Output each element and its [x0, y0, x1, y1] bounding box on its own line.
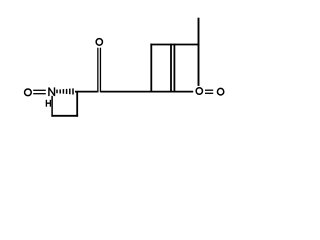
bond ring2 top edge [150, 44, 199, 46]
bond methyl and ring2 right edge [198, 18, 200, 86]
bond ring bottom (CH2-CH2) [51, 115, 78, 117]
atom O3 (ring oxygen) [196, 88, 202, 95]
bond ring right (CH2 to C2 stereocenter) [76, 91, 78, 116]
bond chain C2 to carbonyl C3 [75, 91, 97, 93]
atom H1 (N-H hydrogen) [46, 100, 50, 107]
atom N1 (ring nitrogen) [49, 87, 55, 96]
bond hashed wedge N1-C2 [57, 88, 73, 94]
atom O4 (terminal oxygen) [217, 88, 223, 95]
bond chain C3 to ring O3 [101, 91, 193, 93]
bond C3=O2 double bond [98, 48, 101, 93]
atom O2 (carbonyl oxygen) [96, 39, 102, 46]
bond ring2 left edge [150, 44, 152, 93]
bond O3=O4 double bond [205, 90, 213, 93]
bond ring left (N1 to CH2) [51, 96, 53, 117]
bond N1=O1 double bond [33, 90, 46, 93]
atom O1 (nitroso oxygen) [25, 89, 32, 96]
bond ring2 C=C double bond [171, 44, 174, 93]
